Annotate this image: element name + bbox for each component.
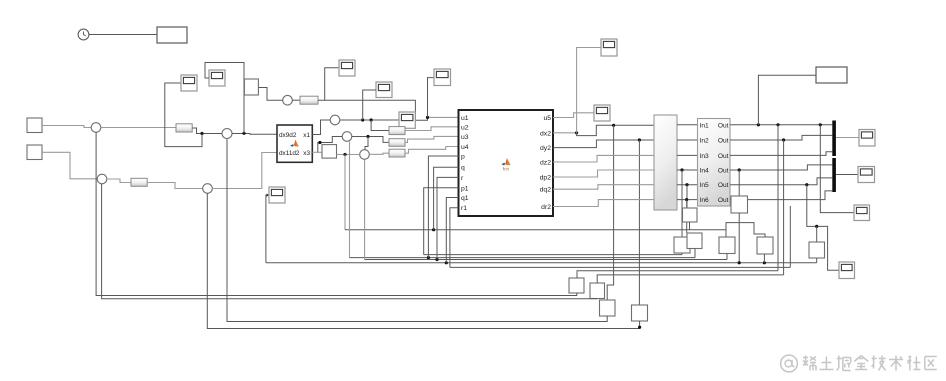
display scope block [399, 112, 415, 128]
junction dot out1 c [819, 123, 822, 126]
gain G1 [176, 124, 192, 132]
wire x1 to sumA [312, 120, 330, 135]
scope B [209, 70, 225, 86]
unit delay SqC [719, 237, 735, 254]
scope S1 unconnected [267, 187, 286, 203]
wire Sq4 output bus y327 [207, 193, 639, 328]
wire sum1 to gain G1 [101, 127, 176, 129]
scope D [376, 82, 392, 98]
wire q feed [434, 167, 459, 230]
wire branch into SqE [816, 226, 818, 242]
svg-text:u2: u2 [461, 124, 469, 131]
scope u5 [594, 105, 610, 121]
wire Sq1 output bus y295 [96, 132, 577, 295]
wire r feed [437, 177, 459, 259]
svg-text:In1: In1 [700, 122, 709, 129]
wire sum2 to gain G2 [107, 179, 131, 183]
junction dot r tap [435, 258, 438, 261]
wire integrator to subsystem row3 [677, 154, 698, 156]
junction dot row6 left [685, 198, 688, 201]
wire branch up to scope B and unit delay [205, 63, 244, 134]
wire SqC output stub [726, 254, 728, 260]
to-workspace block B2 [157, 27, 187, 43]
wire SqG output stub [689, 222, 691, 230]
svg-text:u4: u4 [461, 144, 469, 151]
wire branch to scope C [325, 68, 339, 101]
svg-text:p1: p1 [461, 185, 469, 192]
scope C [339, 60, 355, 76]
sum junction B [342, 132, 352, 142]
wire Sq3 output bus y321 [227, 139, 607, 322]
junction dot out1 a [757, 123, 760, 126]
junction dot Sq4 out [638, 326, 641, 329]
svg-text:x3: x3 [303, 150, 310, 157]
svg-text:In2: In2 [700, 138, 709, 145]
clock block [78, 29, 89, 40]
wire out2 branch down bus [783, 140, 785, 275]
gain G5 [389, 139, 405, 147]
sum junction G [283, 95, 293, 105]
gain G4 [389, 127, 405, 135]
wire row5 branch to SqG [686, 185, 688, 208]
svg-text:dz2: dz2 [540, 160, 551, 167]
wire G2 to sum3 [147, 183, 203, 189]
wire p1 feed [424, 188, 459, 255]
wire SQ2 to sumC [337, 154, 360, 156]
wire x3 branch to sumB [318, 137, 342, 153]
wire feedback to scope A [165, 83, 202, 147]
wire sumC to gain G6 [369, 153, 389, 154]
wire sumC bottom line [364, 159, 366, 259]
svg-text:p: p [461, 154, 465, 161]
wire SqH down to bus262 [738, 213, 740, 263]
junction dot row5 left [685, 183, 688, 186]
svg-text:Out: Out [718, 168, 729, 175]
wire SqA output stub [681, 253, 683, 255]
svg-text:u5: u5 [543, 115, 551, 122]
wire SqD output stub [763, 254, 765, 263]
junction dot u1 [426, 116, 429, 119]
svg-text:In4: In4 [700, 168, 709, 175]
wire out2 to mux bar1 [730, 135, 832, 140]
wire dx2 branch down to Sq3 [607, 125, 613, 300]
wire out1 branch to scope SC3 [820, 125, 854, 213]
matlab function block F2 (10-in 7-out) [459, 110, 554, 216]
junction dot p tap [427, 256, 430, 259]
svg-text:Out: Out [718, 197, 729, 204]
wire branch into sumC top [365, 137, 368, 150]
wire integrator to subsystem row5 [677, 184, 698, 186]
bus wire y274 to Sq2 [597, 275, 783, 283]
gain G2 [131, 178, 147, 186]
scope SC3 [854, 205, 870, 221]
wire r1 feed [450, 208, 459, 268]
wire out5 to mux bar2 [730, 178, 832, 185]
wire G3 output to u1 [318, 100, 428, 120]
bus wire y229 [345, 229, 726, 231]
wire branch down to gain G4 [371, 120, 389, 131]
bus wire y259 [365, 259, 727, 261]
wire G5 to u3 [405, 136, 459, 142]
wire out1 to mux bar1 [730, 124, 832, 126]
wire out4 to mux bar2 [730, 165, 832, 170]
svg-text:dx9d2: dx9d2 [279, 132, 297, 139]
junction dot out4 [738, 168, 741, 171]
wire out1 branch down bus [777, 125, 779, 271]
svg-text:Out: Out [718, 182, 729, 189]
wire sumA output to display scope [340, 119, 399, 121]
wire out4 branch to SqH [738, 170, 740, 196]
wire integrator to subsystem row1 [677, 124, 698, 126]
wire bus229 jog to SqD top [726, 223, 765, 237]
svg-text:dy2: dy2 [540, 145, 551, 152]
wire into u1 [428, 116, 459, 118]
wire dz2 to mux in3 [553, 155, 654, 162]
wire dx2 out [553, 132, 577, 134]
wire dq2 to mux in5 [553, 185, 654, 190]
svg-text:u1: u1 [461, 115, 469, 122]
unit delay Sq1 [569, 278, 584, 293]
junction dot q tap [432, 228, 435, 231]
junction dot out1 b [776, 123, 779, 126]
gain G3 [300, 96, 318, 104]
wire G6 to u4 [405, 147, 459, 154]
matlab function block F1 [277, 125, 312, 162]
wire clock to workspace block [89, 34, 157, 36]
junction dot row4 left [680, 168, 683, 171]
wire dx2 to mux in1 [577, 125, 654, 135]
wire sumB to gain G5 [352, 137, 389, 143]
wire dr2 to mux in6 [553, 200, 654, 207]
wire bus229 to SqC top [725, 230, 727, 237]
unit delay SqE [809, 242, 825, 258]
wire x3 to square SQ2 [312, 151, 322, 153]
wire sumB bottom line [349, 141, 351, 257]
junction dot out2 [782, 138, 785, 141]
wire In2 to sum2 [42, 152, 97, 179]
junction dot q1 tap [445, 261, 448, 264]
wire squareC to sum G [258, 88, 282, 101]
wire q1 feed [446, 198, 458, 263]
junction dot x3 [318, 141, 321, 144]
bus wire y270 to Sq1 [577, 271, 778, 278]
svg-text:fcn: fcn [503, 167, 510, 172]
wire dx2 up to top scope [577, 48, 601, 133]
mux bar 1 [832, 121, 836, 157]
svg-text:In5: In5 [700, 182, 709, 189]
scope SC2 [858, 167, 875, 183]
junction dot sumB out [366, 135, 369, 138]
gain G6 [389, 149, 405, 157]
svg-text:r1: r1 [461, 205, 467, 212]
wire bus262 up to scope S1 [266, 195, 267, 263]
wire SqE output stub [816, 258, 818, 263]
junction dot out5 [805, 183, 808, 186]
sum junction S3 [203, 184, 213, 194]
sum junction C [360, 150, 370, 160]
wire sum3 to fcn dx11d2 input [212, 153, 277, 189]
wire G4 to u2 [405, 127, 459, 131]
unit delay SqA [674, 237, 690, 253]
svg-text:Out: Out [718, 138, 729, 145]
junction dot sumA 2 [370, 118, 373, 121]
scope SC1 [859, 130, 875, 147]
junction dot sumA 1 [361, 118, 364, 121]
wire Sq2 output bus y298 [102, 184, 597, 299]
wire G1 to sumM [192, 128, 222, 134]
inport In2 block [27, 145, 42, 160]
inport In1 block [27, 118, 42, 133]
subsystem block In1-6/Out1-6 [698, 119, 731, 207]
watermark text [781, 355, 937, 372]
wire out6 to mux bar2 [730, 191, 832, 200]
scope E [434, 69, 451, 86]
wire integrator to subsystem row2 [677, 139, 698, 141]
wire branch to scope E [428, 78, 435, 118]
junction dot dx2 branch [612, 124, 615, 127]
wire sumG to gain G3 [292, 99, 300, 101]
svg-text:dx11d2: dx11d2 [279, 150, 300, 157]
sum junction S1a [91, 123, 101, 133]
wire u5 to scope [553, 113, 594, 118]
svg-text:In3: In3 [700, 153, 709, 160]
wire branch down from SQ2 wire [344, 155, 346, 230]
sum junction M [222, 129, 232, 139]
svg-text:Out: Out [718, 153, 729, 160]
wire dy2 branch down to Sq4 [638, 140, 640, 305]
wire out1 up to workspace block [758, 75, 816, 125]
junction dot dx2 [575, 131, 578, 134]
unit delay square C [244, 79, 258, 95]
junction dot out5 b [815, 225, 818, 228]
wire bar2 to scope SC2 [836, 174, 858, 176]
junction dot SqD join [763, 261, 766, 264]
wire bar1 to scope SC1 [836, 137, 859, 139]
svg-text:dr2: dr2 [541, 204, 551, 211]
scope A [181, 75, 197, 91]
wire integrator to subsystem row6 [677, 199, 698, 201]
unit delay SqD [757, 237, 773, 254]
scope top [601, 39, 617, 56]
unit delay SqH [731, 196, 748, 213]
unit delay Sq3 [600, 300, 616, 316]
to-workspace block TR [816, 67, 847, 83]
svg-text:Out: Out [718, 122, 729, 129]
wire In1 to sum1 [42, 126, 91, 128]
wire dp2 to mux in4 [553, 170, 654, 177]
sum junction A [330, 115, 340, 125]
wire out5 branch to SqE and scope F [807, 185, 839, 271]
bus wire y267 [450, 266, 790, 268]
svg-text:dq2: dq2 [540, 187, 552, 194]
wire dy2 to mux in2 [553, 140, 654, 148]
junction dot SQ2 out [343, 153, 346, 156]
svg-text:q1: q1 [461, 195, 469, 202]
wire out3 to mux bar1 [730, 152, 832, 156]
bus wire y257 [350, 257, 696, 259]
junction dot node B [242, 132, 245, 135]
wire SqB output stub [694, 249, 696, 258]
unit delay SqB [687, 233, 702, 249]
unit delay Sq2 [590, 283, 605, 299]
junction dot on G1 output [200, 132, 203, 135]
junction dot SqH join [738, 261, 741, 264]
wire bus267 right vertical [789, 206, 791, 267]
sum junction S2 [97, 174, 107, 184]
svg-text:x1: x1 [303, 132, 310, 139]
svg-text:dp2: dp2 [540, 175, 552, 182]
wire sumM to fcn dx9d2 input [232, 133, 277, 136]
wire row6 branch to SqB [686, 200, 688, 233]
svg-text:q: q [461, 165, 465, 172]
wire integrator to subsystem row4 [677, 169, 698, 171]
unit delay SQ2 [322, 145, 337, 159]
wire branch to scope D [363, 90, 376, 120]
wire row4 branch to SqA [681, 170, 683, 237]
bus wire y254 [424, 254, 682, 256]
integrator column block [654, 115, 677, 210]
scope F [839, 262, 855, 279]
svg-text:In6: In6 [700, 197, 709, 204]
junction dot dy2 branch [638, 138, 641, 141]
wire p feed [428, 156, 458, 258]
mux bar 2 [832, 158, 836, 192]
unit delay Sq4 [632, 305, 648, 321]
svg-text:dx2: dx2 [540, 130, 551, 137]
unit delay SqG [683, 208, 698, 222]
svg-text:u3: u3 [461, 134, 469, 141]
bus wire y262 [266, 262, 817, 264]
